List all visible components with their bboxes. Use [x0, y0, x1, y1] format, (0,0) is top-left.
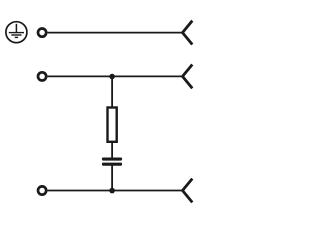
protective earth symbol — [6, 22, 27, 43]
terminal (bottom) — [38, 186, 46, 194]
resistor — [108, 108, 117, 142]
connector chevron (top) — [183, 21, 193, 45]
wire (capacitor to bottom wire) — [111, 165, 113, 190]
connector chevron (middle) — [183, 65, 193, 89]
junction dot (bottom wire) — [109, 188, 115, 194]
wire (bottom row) — [48, 190, 183, 192]
wire (top row) — [48, 32, 183, 34]
wire (junction to resistor) — [111, 76, 113, 107]
terminal (top) — [38, 28, 46, 36]
wire (middle row) — [48, 75, 183, 77]
terminal (middle) — [38, 72, 46, 80]
wire (resistor to capacitor) — [111, 143, 113, 159]
junction dot (middle wire) — [109, 74, 115, 80]
capacitor — [102, 158, 122, 166]
connector chevron (bottom) — [183, 179, 193, 203]
